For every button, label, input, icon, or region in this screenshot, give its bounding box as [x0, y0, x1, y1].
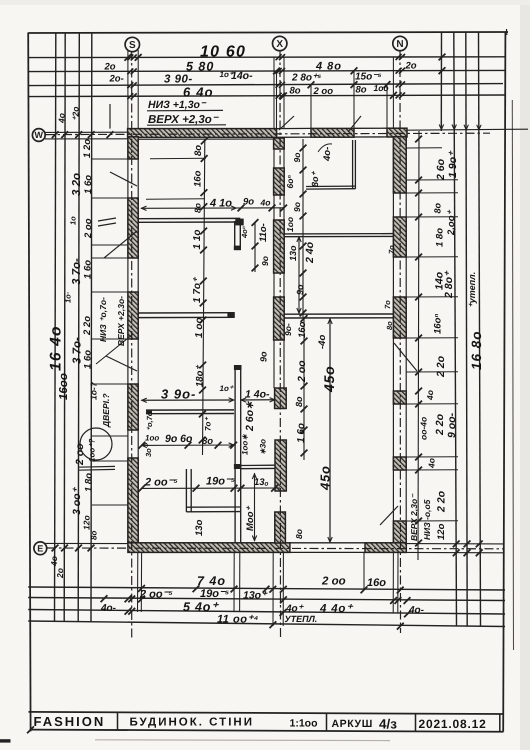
svg-text:1 6o: 1 6o — [296, 423, 307, 443]
svg-text:1 7o⁺: 1 7o⁺ — [192, 276, 203, 303]
bottom wall face lines across opening — [290, 542, 365, 544]
left wall hatched segment 4 — [128, 384, 138, 430]
svg-text:oo-4o: oo-4o — [419, 417, 429, 440]
left wall face lines across openings — [127, 137, 129, 543]
svg-text:3 oo⁺: 3 oo⁺ — [71, 486, 83, 515]
top wall face extension right — [407, 129, 528, 130]
svg-text:15o⁻⁵: 15o⁻⁵ — [355, 72, 382, 83]
dim line horizontal y400 for 390 — [142, 399, 235, 401]
svg-text:2 oo⁻⁵: 2 oo⁻⁵ — [144, 477, 178, 489]
axis circle X — [273, 36, 287, 50]
axis W centerline — [46, 133, 491, 134]
svg-text:13o: 13o — [288, 245, 298, 261]
svg-text:8o: 8o — [290, 86, 301, 97]
svg-text:N: N — [396, 39, 403, 50]
axis circle E — [34, 542, 47, 555]
svg-text:ДВЕРІ.?: ДВЕРІ.? — [101, 393, 111, 428]
window diag left 3 — [106, 356, 137, 371]
left wall hatched segment 1 — [128, 137, 138, 159]
window sill mark left low — [78, 465, 115, 468]
svg-text:4/з: 4/з — [379, 716, 397, 731]
bottom dim line row2 — [28, 598, 505, 601]
svg-text:11 oo⁺⁴: 11 oo⁺⁴ — [217, 614, 259, 626]
svg-text:2 2o: 2 2o — [434, 413, 446, 436]
svg-text:4 8o: 4 8o — [315, 61, 342, 73]
svg-text:4o-: 4o- — [408, 605, 425, 616]
interior wall E left part — [138, 312, 234, 314]
dim line vertical x255 — [254, 222, 256, 272]
svg-text:4 4o⁺: 4 4o⁺ — [319, 603, 354, 615]
interior wall C hatched pier 2 — [274, 220, 285, 273]
right dim line col1 x442 — [440, 33, 442, 132]
dim line vertical x304 lower col — [303, 318, 305, 460]
svg-text:4o-: 4o- — [100, 603, 117, 614]
interior wall F vertical — [234, 366, 236, 543]
extension stubs above top wall — [276, 71, 278, 129]
svg-text:ВЕРХ +2,3o-: ВЕРХ +2,3o- — [116, 296, 126, 346]
svg-text:9o 6o: 9o 6o — [165, 433, 193, 445]
svg-text:10 60: 10 60 — [200, 44, 246, 61]
svg-text:3 2o: 3 2o — [71, 173, 83, 196]
top dim line row2 y71 — [28, 70, 505, 71]
right wall hatched segment 3 — [393, 297, 406, 338]
svg-text:9o-: 9o- — [283, 323, 293, 336]
svg-text:УТЕПЛ.: УТЕПЛ. — [285, 614, 318, 624]
svg-text:Мoo⁺: Мoo⁺ — [245, 505, 256, 531]
top wall hatched segment right — [387, 128, 407, 137]
bottom wall hatched segment right — [365, 543, 406, 553]
extension stubs above wall near axes — [127, 50, 129, 129]
bathroom partition vertical — [185, 469, 187, 512]
svg-text:4o: 4o — [57, 113, 67, 124]
svg-text:2 4o: 2 4o — [304, 241, 316, 264]
svg-text:7 4o: 7 4o — [197, 574, 226, 588]
svg-text:8o: 8o — [193, 203, 203, 213]
left dim line col3 x79 — [78, 33, 79, 623]
svg-text:1oo∗: 1oo∗ — [241, 434, 250, 455]
svg-text:7o: 7o — [387, 245, 396, 254]
svg-text:9o: 9o — [260, 256, 270, 266]
svg-text:1oo: 1oo — [285, 217, 295, 232]
svg-text:4o: 4o — [260, 198, 271, 208]
bottom faint scan line — [95, 739, 390, 742]
top wall hatched segment left — [128, 129, 277, 138]
interior wall C hatched pier 1 — [274, 168, 285, 195]
svg-text:9o: 9o — [292, 202, 302, 212]
svg-text:5 80: 5 80 — [186, 60, 214, 74]
svg-text:8o: 8o — [385, 321, 394, 330]
svg-text:4o⁺: 4o⁺ — [285, 604, 305, 615]
title block top line — [29, 712, 505, 714]
interior wall C hatched pier 5 — [275, 440, 286, 491]
interior wall G horizontal — [146, 409, 234, 411]
svg-text:4o: 4o — [49, 556, 59, 567]
svg-text:8o⁺: 8o⁺ — [310, 170, 320, 187]
dim line vertical x204 topleft rooms — [203, 139, 205, 455]
svg-text:12o: 12o — [82, 515, 92, 530]
right wall hatched segment 6 — [393, 521, 406, 543]
svg-text:2o-: 2o- — [109, 74, 124, 85]
title block bottom line — [30, 730, 504, 732]
right dim line col3 x466 — [466, 33, 467, 627]
bathroom partition horizontal — [186, 506, 240, 508]
svg-text:1 8o: 1 8o — [435, 228, 446, 247]
svg-text:16o: 16o — [367, 577, 386, 589]
right dim line col2 x454 — [454, 33, 457, 627]
svg-text:1o-?: 1o-? — [89, 381, 99, 400]
ticks on axis E crossing left cols — [52, 545, 59, 552]
ticks on bottom rows — [138, 585, 145, 592]
svg-text:1 4o-: 1 4o- — [245, 389, 270, 401]
svg-text:11o-: 11o- — [258, 223, 269, 242]
svg-text:S: S — [129, 40, 136, 51]
bottom dim line row4 — [28, 621, 505, 627]
interior wall C hatched pier 6 — [275, 512, 286, 543]
svg-text:2o: 2o — [405, 61, 417, 72]
extension stubs below bottom wall — [137, 553, 139, 613]
ticks on top rows misc — [273, 68, 280, 75]
title block divider 3 — [415, 714, 417, 732]
top dim line row3 y85 — [28, 84, 503, 86]
axis N centerline — [399, 51, 402, 634]
svg-text:2,oo⁺: 2,oo⁺ — [446, 209, 457, 236]
svg-text:-4o: -4o — [317, 335, 328, 349]
svg-text:X: X — [276, 39, 283, 50]
dim line vertical x419 right outside — [418, 131, 419, 560]
svg-text:8o: 8o — [202, 436, 213, 447]
svg-text:2 6o: 2 6o — [435, 158, 447, 181]
dim line vertical x303 center col — [302, 139, 304, 318]
bottom wall hatched segment left — [128, 543, 290, 553]
left wall hatched segment 2 — [128, 198, 138, 258]
svg-text:БУДИНОК. СТІНИ: БУДИНОК. СТІНИ — [130, 717, 254, 729]
wc partition horizontal — [241, 464, 275, 466]
svg-text:3 7o-: 3 7o- — [71, 258, 83, 285]
tick at border title join — [27, 726, 34, 733]
svg-text:4 1o: 4 1o — [209, 198, 232, 210]
svg-text:АРКУШ: АРКУШ — [332, 718, 373, 730]
interior wall E right part — [284, 313, 393, 315]
axis X centerline — [279, 51, 282, 639]
svg-text:19o⁻⁵: 19o⁻⁵ — [200, 588, 230, 600]
svg-text:4o: 4o — [425, 390, 435, 401]
svg-text:НИЗ +1,3o⁻: НИЗ +1,3o⁻ — [148, 99, 207, 111]
dim stub y158 room1 — [150, 157, 206, 159]
top wall face lines across openings — [277, 127, 312, 129]
svg-text:1 9o⁺: 1 9o⁺ — [447, 150, 459, 178]
svg-text:1oo⁺?: 1oo⁺? — [88, 439, 97, 462]
door diag right 2 — [380, 506, 398, 525]
svg-text:9 oo-: 9 oo- — [446, 412, 458, 438]
svg-text:∗3o: ∗3o — [259, 439, 268, 455]
window diag top 2 — [348, 116, 361, 132]
svg-text:18o⁺: 18o⁺ — [195, 365, 206, 387]
svg-text:2 8o⁺: 2 8o⁺ — [443, 270, 455, 299]
ticks on bottom right verticals — [453, 541, 460, 548]
svg-text:6 4o: 6 4o — [183, 85, 214, 100]
svg-text:2 oo: 2 oo — [321, 576, 346, 588]
dim line horizontal y488 — [142, 487, 281, 489]
svg-text:1oo: 1oo — [374, 83, 389, 93]
svg-text:1 oo: 1 oo — [194, 317, 205, 338]
svg-text:13o⁺: 13o⁺ — [243, 590, 268, 602]
axis circle S — [125, 37, 139, 51]
left dim line col2 x65 — [64, 33, 65, 623]
svg-text:9o: 9o — [259, 351, 269, 362]
sheet border right — [503, 33, 505, 732]
right wall hatched segment 1 — [393, 137, 406, 193]
svg-text:ВЕРХ +2,3o⁻: ВЕРХ +2,3o⁻ — [148, 114, 220, 126]
svg-text:6oⁿ: 6oⁿ — [285, 175, 295, 189]
svg-text:W: W — [35, 130, 44, 140]
svg-text:8o: 8o — [433, 202, 443, 213]
svg-text:НИЗ ⁺o,7o-: НИЗ ⁺o,7o- — [98, 297, 108, 342]
svg-text:2 2o: 2 2o — [435, 355, 447, 378]
door diag right 1 — [394, 343, 417, 371]
interior wall C hatched pier 3 — [274, 297, 285, 340]
svg-text:16 8o: 16 8o — [469, 330, 484, 370]
top dim line row4 y96 — [28, 95, 505, 97]
dim line horizontal y400 for 140 — [241, 399, 275, 401]
svg-text:1 8o: 1 8o — [84, 473, 95, 492]
svg-text:13o: 13o — [194, 519, 205, 536]
svg-text:2 oo⁻⁵: 2 oo⁻⁵ — [139, 589, 173, 601]
circled dim 100 — [80, 428, 112, 460]
sheet border top line — [28, 32, 508, 33]
ticks on axis S top rows — [127, 54, 133, 60]
left wall hatched segment 5 — [128, 458, 138, 543]
axis S centerline — [131, 51, 133, 638]
svg-text:5 4o⁺: 5 4o⁺ — [183, 600, 219, 614]
dim tick stubs left side — [92, 158, 128, 160]
svg-text:4o-: 4o- — [322, 147, 333, 162]
interior wall A horizontal — [138, 217, 240, 219]
ticks on axis N top rows — [396, 54, 402, 60]
svg-text:45o: 45o — [321, 365, 337, 393]
right dim line col4 x478 — [479, 33, 481, 627]
ticks on axis X top rows — [276, 54, 282, 60]
svg-text:9o: 9o — [295, 284, 305, 295]
svg-text:4o: 4o — [427, 458, 437, 469]
svg-text:14o-: 14o- — [231, 70, 253, 82]
svg-text:2 2o: 2 2o — [436, 490, 448, 513]
bottom dim line row1 — [28, 587, 505, 590]
dim line horizontal y445 — [142, 444, 235, 446]
svg-text:⁺утепл.: ⁺утепл. — [467, 272, 477, 308]
svg-text:8o: 8o — [294, 396, 304, 407]
svg-text:45o: 45o — [318, 465, 333, 491]
svg-text:2 oo: 2 oo — [296, 360, 308, 383]
top dim line row1 y57 — [28, 56, 505, 59]
left dim line col1 x55.5 — [55, 33, 56, 623]
svg-text:4oⁿ: 4oⁿ — [240, 226, 249, 239]
svg-text:19o⁻⁵: 19o⁻⁵ — [206, 476, 236, 488]
svg-text:3 9o-: 3 9o- — [161, 387, 196, 402]
svg-text:8o: 8o — [193, 145, 204, 156]
right wall hatched segment 2 — [393, 217, 406, 257]
svg-text:2 oo: 2 oo — [83, 218, 94, 239]
right wall hatched pier 5 — [393, 457, 406, 470]
svg-text:8o: 8o — [294, 529, 304, 539]
right wall hatched pier 4 — [393, 391, 406, 404]
svg-text:2 6o∗: 2 6o∗ — [244, 401, 256, 432]
svg-text:16o: 16o — [193, 170, 204, 187]
svg-text:8o: 8o — [90, 531, 99, 540]
svg-text:7o: 7o — [383, 300, 392, 309]
interior wall B vertical — [234, 221, 236, 250]
arrow ends right cols at wall — [439, 125, 443, 130]
svg-text:2o: 2o — [55, 568, 65, 579]
svg-text:16oⁿ: 16oⁿ — [433, 314, 444, 334]
svg-text:3o⁺: 3o⁺ — [144, 443, 153, 457]
right margin edge line — [512, 100, 513, 650]
svg-text:FASHION: FASHION — [34, 714, 106, 729]
svg-text:E: E — [37, 544, 43, 554]
svg-text:16oo: 16oo — [58, 373, 70, 400]
dim line vertical x254 wc — [254, 473, 256, 541]
svg-text:2021.08.12: 2021.08.12 — [419, 717, 487, 731]
leader diag left mid — [96, 334, 133, 364]
svg-text:1:1oo: 1:1oo — [290, 718, 318, 730]
dim line vertical x330 for 450 — [329, 319, 331, 543]
axis circle W — [32, 129, 45, 142]
top wall hatched segment middle — [311, 128, 354, 137]
svg-text:9o: 9o — [292, 153, 302, 163]
svg-text:НИЗ -o,o5: НИЗ -o,o5 — [422, 499, 432, 540]
svg-text:12o: 12o — [436, 523, 447, 540]
dim line vertical x299 for 240 — [298, 236, 300, 314]
svg-text:2 8o⁺⁵: 2 8o⁺⁵ — [291, 73, 321, 84]
interior wall C face lines — [273, 149, 275, 168]
left wall hatched segment 3 — [128, 292, 138, 339]
bottom dim line row3 — [28, 610, 505, 615]
title block divider 2 — [326, 713, 328, 731]
svg-text:1o·: 1o· — [64, 292, 73, 303]
svg-text:16o: 16o — [297, 321, 308, 338]
interior wall D horizontal — [284, 233, 393, 235]
axis circle N — [393, 36, 407, 50]
sheet border left — [28, 33, 30, 732]
right wall face lines across openings — [392, 137, 394, 543]
dim line horizontal y208 room1 width — [141, 207, 284, 210]
top-right closet partition vertical — [352, 140, 354, 189]
top-right closet partition horizontal — [306, 185, 355, 187]
axis E centerline — [47, 547, 504, 550]
title block divider 4 — [499, 714, 501, 732]
svg-text:7o⁺: 7o⁺ — [204, 417, 213, 431]
svg-text:ВЕРХ 2,3o⁻: ВЕРХ 2,3o⁻ — [409, 493, 419, 541]
svg-text:1o⁺: 1o⁺ — [220, 384, 234, 393]
svg-text:1 6o: 1 6o — [83, 350, 94, 369]
svg-text:8o: 8o — [356, 85, 367, 96]
title block divider 1 — [117, 712, 119, 730]
svg-text:⁺o,7o: ⁺o,7o — [145, 411, 154, 431]
interior pier below top wall at axis X — [274, 138, 285, 149]
window diag top 1 — [279, 116, 294, 130]
svg-text:1 6o: 1 6o — [83, 175, 94, 194]
dim stub y199 room1 — [146, 198, 205, 200]
svg-text:1 1o: 1 1o — [192, 229, 203, 249]
svg-text:⁺2o: ⁺2o — [71, 107, 81, 121]
svg-text:1 2o: 1 2o — [82, 139, 93, 158]
svg-text:2 2o: 2 2o — [82, 316, 93, 336]
window diag left 2 — [104, 231, 137, 258]
left dim line col4 x91.5 — [90, 33, 93, 623]
interior wall C hatched pier 4 — [275, 388, 287, 409]
svg-text:16 4o: 16 4o — [48, 325, 65, 371]
window diag left 1 — [110, 172, 137, 186]
svg-text:1oo: 1oo — [145, 434, 159, 443]
svg-text:2o: 2o — [104, 62, 116, 73]
top wall lower double line — [128, 138, 277, 140]
svg-text:1 6o: 1 6o — [83, 260, 94, 279]
ticks on axis W crossing left cols — [52, 131, 59, 138]
window glazing marks left — [98, 218, 116, 221]
svg-text:2 oo: 2 oo — [313, 86, 334, 97]
svg-text:9o: 9o — [243, 197, 254, 208]
black corner dash bottom-left — [0, 739, 11, 742]
svg-text:1o: 1o — [69, 216, 78, 225]
dim tick stubs right side — [406, 179, 458, 181]
